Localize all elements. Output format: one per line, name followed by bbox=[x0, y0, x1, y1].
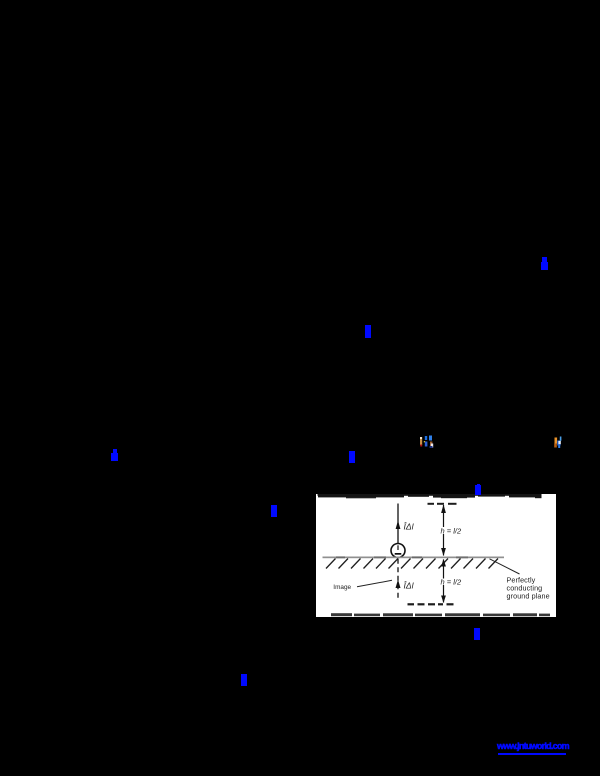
node link-1 (blue footnote mark) bbox=[542, 257, 547, 263]
node top dashed reference line bbox=[428, 503, 457, 505]
node bottom clipped-caption smudge bbox=[331, 613, 550, 616]
node bottom dashed reference line bbox=[408, 603, 454, 605]
node www-link (blue underlined hyperlink text) bbox=[497, 741, 569, 752]
node link-6 (blue footnote mark) bbox=[271, 505, 277, 517]
node link-4 (blue footnote mark) bbox=[349, 451, 355, 463]
node ground hatching strokes bbox=[326, 559, 498, 569]
node eq-fragment-A (tiny colored equation pixels) bbox=[419, 435, 435, 449]
node top clipped-text smudge bbox=[318, 494, 542, 498]
svg-text:Image: Image bbox=[333, 584, 351, 591]
wire dimension line h upper segment bbox=[443, 505, 445, 527]
node current source circle bbox=[391, 544, 405, 558]
wire antenna vertical line above ground bbox=[397, 504, 399, 545]
node link-7 (blue footnote mark) bbox=[474, 628, 480, 640]
wire dimension line h lower segment bbox=[443, 560, 445, 579]
figure panel: white scanned image bbox=[316, 494, 556, 617]
wire pointer to ground plane label bbox=[490, 559, 520, 574]
node link-8 (blue footnote mark) bbox=[241, 674, 247, 687]
node arrowhead on antenna (current direction up) bbox=[396, 521, 401, 530]
node ground plane line bbox=[323, 557, 505, 559]
node source inner bar bbox=[395, 553, 402, 555]
node source inner tick bbox=[397, 545, 399, 550]
svg-text:h = l/2: h = l/2 bbox=[441, 527, 462, 536]
node arrowhead on image dipole bbox=[396, 580, 401, 589]
wire image dipole dashed line below ground bbox=[397, 559, 399, 601]
svg-text:ground plane: ground plane bbox=[507, 592, 550, 601]
svg-text:h = l/2: h = l/2 bbox=[441, 578, 462, 587]
node link-3 (blue footnote mark) bbox=[113, 449, 117, 455]
node link-5 (blue footnote mark overlapping figure top) bbox=[475, 485, 481, 496]
node eq-fragment-B (tiny colored equation pixels) bbox=[553, 436, 565, 449]
svg-text:ÎΔl: ÎΔl bbox=[404, 522, 415, 532]
node link-2 (blue footnote mark) bbox=[365, 325, 372, 338]
wire pointer from Image label to image dipole bbox=[357, 580, 392, 587]
svg-text:ÎΔl: ÎΔl bbox=[404, 581, 415, 591]
